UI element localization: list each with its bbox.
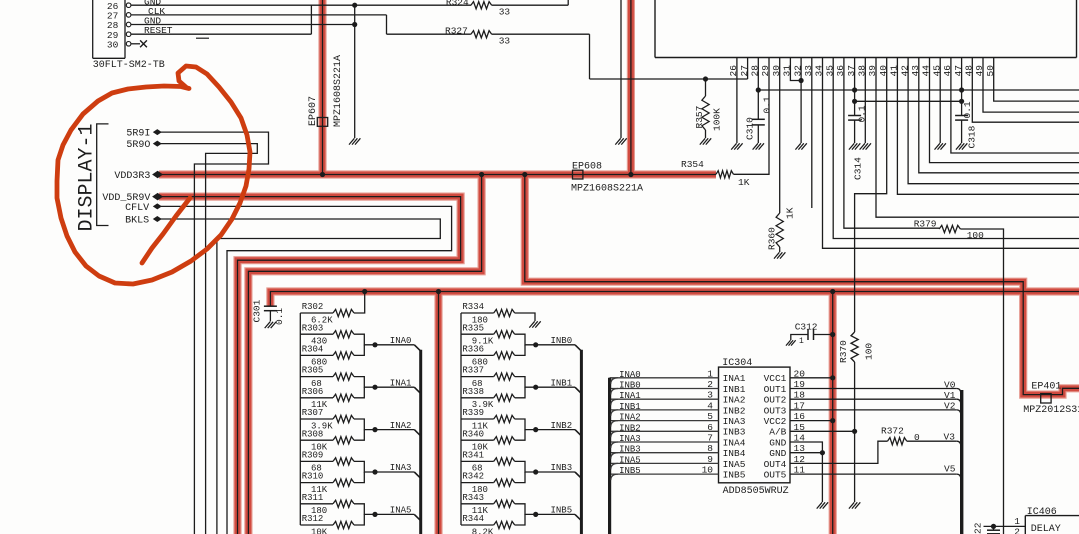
- svg-text:R354: R354: [681, 159, 704, 170]
- svg-text:R342: R342: [462, 472, 484, 482]
- svg-text:INA0: INA0: [619, 370, 641, 380]
- svg-text:INB3: INB3: [723, 427, 746, 438]
- svg-text:R344: R344: [462, 514, 484, 524]
- svg-text:30: 30: [107, 39, 119, 50]
- svg-text:INB0: INB0: [619, 381, 641, 391]
- svg-text:INA3: INA3: [723, 416, 746, 427]
- svg-text:R336: R336: [462, 345, 484, 355]
- svg-text:INA2: INA2: [723, 395, 746, 406]
- svg-text:22: 22: [973, 522, 984, 534]
- svg-text:R308: R308: [302, 429, 324, 439]
- svg-text:C310: C310: [745, 117, 756, 140]
- svg-text:100: 100: [967, 230, 984, 241]
- svg-text:RESET: RESET: [144, 25, 173, 36]
- svg-text:EP608: EP608: [572, 162, 602, 173]
- svg-text:R305: R305: [302, 366, 324, 376]
- svg-text:R357: R357: [694, 106, 705, 129]
- svg-text:MPZ1608S221A: MPZ1608S221A: [571, 184, 643, 195]
- svg-text:INB4: INB4: [723, 448, 746, 459]
- svg-text:R339: R339: [462, 408, 484, 418]
- svg-text:V3: V3: [944, 431, 956, 442]
- svg-text:INB1: INB1: [551, 378, 573, 388]
- svg-text:A/B: A/B: [769, 427, 786, 438]
- svg-text:INB1: INB1: [619, 402, 641, 412]
- svg-text:R303: R303: [302, 323, 324, 333]
- svg-text:EP401: EP401: [1031, 381, 1061, 392]
- svg-text:V2: V2: [944, 401, 956, 412]
- svg-text:R372: R372: [881, 425, 904, 436]
- svg-text:0.1: 0.1: [962, 101, 973, 118]
- svg-text:V1: V1: [944, 390, 956, 401]
- svg-text:MPZ1608S221A: MPZ1608S221A: [333, 55, 344, 127]
- svg-text:BKLS: BKLS: [125, 216, 149, 227]
- svg-text:R311: R311: [302, 493, 324, 503]
- svg-text:DISPLAY-1: DISPLAY-1: [76, 123, 99, 231]
- svg-text:0.1: 0.1: [762, 96, 773, 113]
- svg-text:INB1: INB1: [723, 384, 746, 395]
- svg-text:IC304: IC304: [722, 358, 752, 369]
- svg-text:MPZ2012S31: MPZ2012S31: [1023, 405, 1079, 416]
- svg-text:8.2K: 8.2K: [472, 527, 494, 534]
- svg-text:ADD8505WRUZ: ADD8505WRUZ: [723, 486, 789, 497]
- svg-text:5R9O: 5R9O: [126, 140, 150, 151]
- svg-text:INB2: INB2: [619, 423, 641, 433]
- svg-text:10K: 10K: [311, 527, 328, 534]
- svg-text:INA5: INA5: [619, 455, 641, 465]
- svg-text:INA1: INA1: [619, 391, 641, 401]
- svg-text:GND: GND: [769, 437, 786, 448]
- svg-text:VDD3R3: VDD3R3: [114, 171, 150, 182]
- svg-text:OUT1: OUT1: [764, 384, 787, 395]
- svg-text:1K: 1K: [738, 177, 750, 188]
- svg-text:EP607: EP607: [308, 96, 319, 126]
- svg-text:INA1: INA1: [723, 373, 746, 384]
- svg-text:R302: R302: [302, 302, 324, 312]
- svg-text:30FLT-SM2-TB: 30FLT-SM2-TB: [93, 60, 165, 71]
- svg-text:R337: R337: [462, 366, 484, 376]
- svg-text:R310: R310: [302, 472, 324, 482]
- svg-text:R312: R312: [302, 514, 324, 524]
- svg-text:R304: R304: [302, 345, 324, 355]
- svg-text:INA0: INA0: [390, 336, 412, 346]
- svg-text:INA2: INA2: [619, 413, 641, 423]
- svg-text:VCC2: VCC2: [764, 416, 787, 427]
- svg-text:OUT4: OUT4: [764, 459, 787, 470]
- svg-text:R334: R334: [462, 302, 484, 312]
- svg-text:INB2: INB2: [723, 405, 746, 416]
- svg-text:R324: R324: [446, 0, 469, 8]
- svg-text:INB3: INB3: [551, 463, 573, 473]
- svg-text:2: 2: [1014, 526, 1020, 534]
- svg-text:INB5: INB5: [619, 466, 641, 476]
- svg-text:OUT2: OUT2: [764, 395, 787, 406]
- svg-text:5R9I: 5R9I: [126, 129, 150, 140]
- svg-text:R370: R370: [838, 340, 849, 363]
- svg-text:R307: R307: [302, 408, 324, 418]
- svg-text:CFLV: CFLV: [125, 203, 149, 214]
- svg-text:C318: C318: [967, 125, 978, 148]
- svg-text:IC406: IC406: [1027, 507, 1057, 518]
- svg-text:C312: C312: [795, 322, 818, 333]
- svg-text:V5: V5: [944, 464, 956, 475]
- svg-text:INA5: INA5: [723, 459, 746, 470]
- svg-text:R306: R306: [302, 387, 324, 397]
- svg-text:INA4: INA4: [723, 437, 746, 448]
- svg-text:1: 1: [799, 337, 804, 346]
- svg-text:100: 100: [864, 343, 875, 360]
- svg-text:C301: C301: [252, 299, 263, 322]
- svg-text:INB0: INB0: [551, 336, 573, 346]
- svg-text:R341: R341: [462, 451, 484, 461]
- svg-text:INA5: INA5: [390, 506, 412, 516]
- svg-text:C314: C314: [853, 157, 864, 180]
- svg-text:INB5: INB5: [551, 506, 573, 516]
- svg-text:OUT5: OUT5: [764, 470, 787, 481]
- svg-text:R340: R340: [462, 429, 484, 439]
- svg-text:R309: R309: [302, 451, 324, 461]
- svg-text:INA1: INA1: [390, 378, 412, 388]
- svg-text:GND: GND: [769, 448, 786, 459]
- svg-text:V0: V0: [944, 379, 956, 390]
- svg-text:R343: R343: [462, 493, 484, 503]
- svg-text:DELAY: DELAY: [1031, 524, 1061, 534]
- svg-text:33: 33: [499, 7, 511, 18]
- svg-text:1K: 1K: [785, 207, 796, 219]
- svg-text:OUT3: OUT3: [764, 405, 787, 416]
- svg-text:R335: R335: [462, 323, 484, 333]
- svg-text:INA2: INA2: [390, 421, 412, 431]
- svg-text:INB5: INB5: [723, 470, 746, 481]
- svg-text:R360: R360: [767, 227, 778, 250]
- svg-text:0.1: 0.1: [274, 308, 285, 325]
- svg-text:INB3: INB3: [619, 445, 641, 455]
- svg-text:INA3: INA3: [390, 463, 412, 473]
- svg-text:R327: R327: [445, 26, 468, 37]
- svg-text:INA3: INA3: [619, 434, 641, 444]
- svg-text:33: 33: [499, 36, 511, 47]
- svg-text:VCC1: VCC1: [764, 373, 787, 384]
- svg-text:R338: R338: [462, 387, 484, 397]
- svg-text:INB2: INB2: [551, 421, 573, 431]
- svg-text:R379: R379: [914, 219, 937, 230]
- svg-text:100K: 100K: [712, 108, 723, 131]
